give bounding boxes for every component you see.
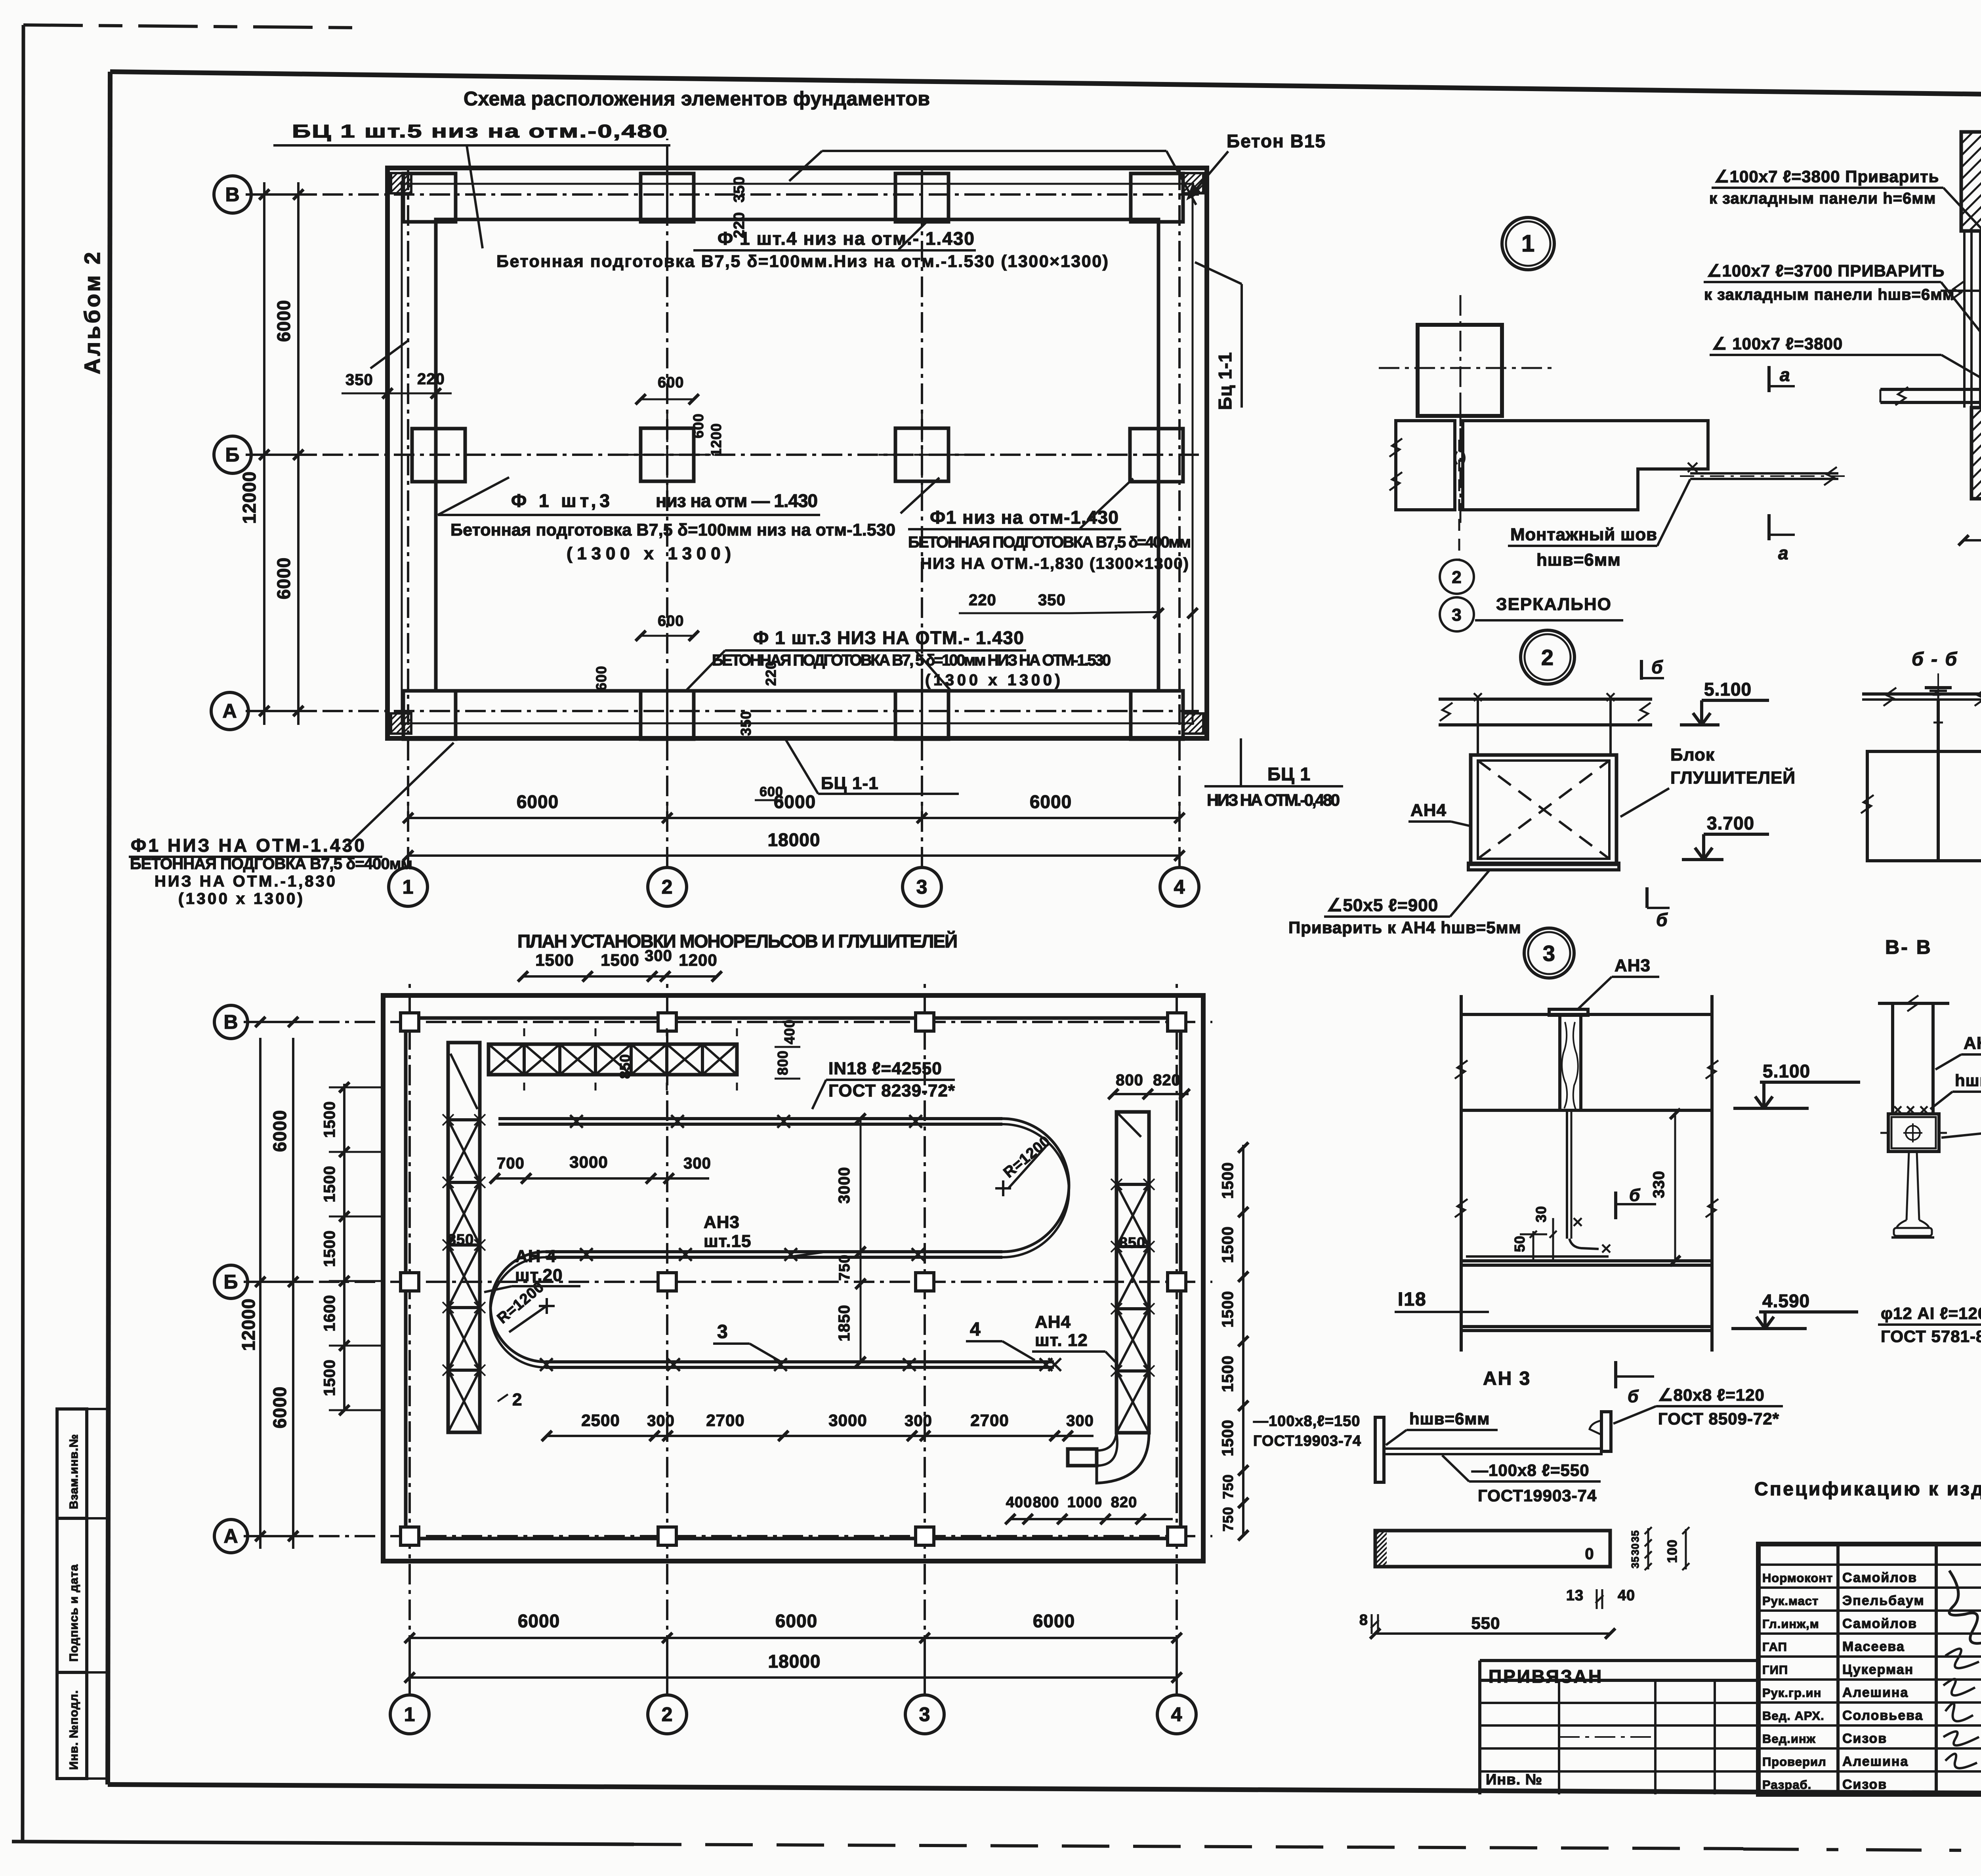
svg-text:Проверил: Проверил [1762,1755,1826,1769]
svg-text:Бц 1-1: Бц 1-1 [1215,352,1235,410]
svg-text:1200: 1200 [679,951,717,969]
title block [1758,1544,1981,1794]
svg-text:Самойлов: Самойлов [1842,1616,1917,1631]
svg-text:БЕТОННАЯ ПОДГОТОВКА В7,5 δ=400: БЕТОННАЯ ПОДГОТОВКА В7,5 δ=400мм [908,534,1191,551]
svg-text:Взам.инв.№: Взам.инв.№ [67,1434,80,1509]
svg-text:В: В [223,1011,238,1033]
detail 3: АН3 anchor elevation [1524,928,1574,978]
svg-text:ПЛАН УСТАНОВКИ МОНОРЕЛЬСОВ И Г: ПЛАН УСТАНОВКИ МОНОРЕЛЬСОВ И ГЛУШИТЕЛЕЙ [517,931,959,951]
svg-text:Нормоконт: Нормоконт [1762,1571,1833,1585]
svg-text:ГИП: ГИП [1762,1663,1788,1677]
svg-text:φ12 АI ℓ=120: φ12 АI ℓ=120 [1881,1304,1981,1323]
svg-text:750: 750 [1220,1474,1236,1499]
svg-text:800: 800 [1116,1071,1143,1089]
svg-text:600: 600 [658,613,684,629]
svg-text:Цукерман: Цукерман [1842,1662,1914,1677]
svg-text:850: 850 [1119,1235,1145,1251]
svg-text:Блок: Блок [1670,745,1715,765]
svg-text:3: 3 [916,876,928,898]
svg-text:А: А [222,700,237,722]
svg-text:В: В [225,183,240,206]
svg-text:АН4: АН4 [1035,1312,1071,1332]
svg-text:18000: 18000 [768,1651,821,1672]
svg-text:1500: 1500 [321,1166,338,1203]
svg-text:35: 35 [1629,1556,1641,1569]
svg-text:б: б [1628,1387,1639,1406]
svg-text:БЦ 1 шт.5 низ на отм.-0,480: БЦ 1 шт.5 низ на отм.-0,480 [292,121,668,141]
svg-text:750: 750 [1220,1506,1236,1531]
svg-text:1: 1 [1521,230,1535,257]
page edges [23,25,23,1842]
svg-text:2700: 2700 [706,1411,744,1430]
svg-text:НИЗ НА ОТМ.-1,830 (1300×1300): НИЗ НА ОТМ.-1,830 (1300×1300) [920,555,1189,572]
svg-text:1500: 1500 [1219,1291,1237,1328]
svg-text:800: 800 [1033,1494,1059,1511]
svg-text:300: 300 [645,947,672,965]
svg-text:АН 3: АН 3 [1483,1368,1531,1389]
svg-text:350: 350 [345,371,373,389]
svg-text:6000: 6000 [1030,791,1072,812]
svg-text:6000: 6000 [1033,1611,1075,1631]
svg-text:шт.20: шт.20 [515,1266,563,1285]
svg-text:Бетонная подготовка В7,5 δ=100: Бетонная подготовка В7,5 δ=100мм.Низ на … [496,252,1109,271]
svg-text:1500: 1500 [1219,1226,1237,1263]
svg-text:ГОСТ19903-74: ГОСТ19903-74 [1478,1486,1597,1505]
svg-text:3000: 3000 [828,1411,867,1430]
svg-text:∠50х5 ℓ=900: ∠50х5 ℓ=900 [1327,896,1438,915]
svg-text:0: 0 [1585,1545,1594,1563]
svg-text:100: 100 [1665,1539,1680,1563]
svg-text:АН3: АН3 [1615,956,1651,975]
svg-text:НИЗ НА ОТМ.-1,830: НИЗ НА ОТМ.-1,830 [155,873,336,890]
svg-text:6000: 6000 [775,1611,817,1631]
svg-text:700: 700 [497,1155,525,1172]
svg-text:Б: Б [224,1271,239,1293]
svg-text:—100х8 ℓ=550: —100х8 ℓ=550 [1471,1461,1590,1479]
svg-text:ГОСТ 8509-72*: ГОСТ 8509-72* [1658,1409,1779,1428]
svg-text:hшв=8мм: hшв=8мм [1955,1071,1981,1090]
svg-text:350: 350 [1038,591,1066,609]
svg-text:850: 850 [448,1232,474,1248]
svg-text:к закладным панели h=6мм: к закладным панели h=6мм [1709,190,1936,207]
svg-text:400: 400 [1006,1494,1032,1511]
svg-text:5.100: 5.100 [1763,1061,1810,1081]
svg-text:4: 4 [1171,1703,1183,1725]
svg-text:Рук.гр.ин: Рук.гр.ин [1762,1686,1821,1700]
svg-text:hшв=6мм: hшв=6мм [1536,550,1621,570]
svg-text:a: a [1780,364,1790,385]
svg-text:1500: 1500 [321,1359,338,1396]
svg-text:750: 750 [836,1254,853,1281]
svg-text:2: 2 [662,876,673,898]
svg-text:600: 600 [690,413,706,438]
svg-text:1500: 1500 [1219,1356,1237,1392]
svg-text:б: б [1656,909,1668,930]
svg-text:3: 3 [919,1703,931,1725]
svg-text:1: 1 [403,876,414,898]
svg-text:Соловьева: Соловьева [1842,1708,1923,1723]
svg-text:3: 3 [1543,941,1555,966]
svg-text:Разраб.: Разраб. [1762,1778,1811,1792]
svg-text:2: 2 [512,1390,522,1409]
svg-text:12000: 12000 [239,471,260,524]
svg-text:Альбом 2: Альбом 2 [80,250,105,374]
svg-text:4: 4 [970,1319,981,1340]
svg-text:6000: 6000 [518,1611,560,1631]
svg-text:АН3: АН3 [704,1213,740,1232]
svg-text:2700: 2700 [970,1411,1009,1430]
svg-text:1600: 1600 [321,1295,338,1332]
svg-text:б - б: б - б [1912,649,1958,670]
svg-text:Гл.инж,м: Гл.инж,м [1762,1617,1819,1631]
svg-text:3000: 3000 [569,1153,608,1171]
svg-text:400: 400 [781,1019,798,1044]
svg-text:4: 4 [1174,876,1185,898]
svg-text:Самойлов: Самойлов [1842,1570,1917,1585]
svg-text:А: А [223,1525,238,1547]
svg-text:350: 350 [731,176,748,202]
svg-text:шт. 12: шт. 12 [1035,1331,1088,1350]
svg-text:220: 220 [731,212,748,238]
svg-text:ГАП: ГАП [1762,1640,1787,1654]
svg-text:850: 850 [617,1054,633,1079]
svg-text:1500: 1500 [321,1101,338,1138]
svg-text:ГЛУШИТЕЛЕЙ: ГЛУШИТЕЛЕЙ [1670,767,1796,787]
svg-text:Б: Б [225,444,240,466]
svg-text:ГОСТ 8239-72*: ГОСТ 8239-72* [828,1081,955,1100]
svg-text:Масеева: Масеева [1842,1639,1905,1654]
svg-text:к закладным панели hшв=6мм: к закладным панели hшв=6мм [1704,286,1954,303]
svg-text:Эпельбаум: Эпельбаум [1842,1593,1925,1608]
svg-text:Спецификацию к изделиям см. ли: Спецификацию к изделиям см. лист 2 [1754,1479,1981,1500]
svg-text:1200: 1200 [708,423,724,456]
svg-text:1500: 1500 [1219,1162,1237,1199]
svg-text:30: 30 [1533,1206,1549,1222]
svg-text:2: 2 [1452,568,1462,587]
svg-text:6000: 6000 [269,1110,290,1152]
svg-text:Сизов: Сизов [1842,1731,1887,1746]
svg-text:ГОСТ19903-74: ГОСТ19903-74 [1253,1433,1361,1449]
svg-text:35: 35 [1629,1530,1641,1542]
svg-text:В- В: В- В [1885,936,1932,958]
svg-text:Алешина: Алешина [1842,1754,1908,1769]
svg-text:БЦ 1: БЦ 1 [1267,764,1311,784]
svg-text:БЦ 1-1: БЦ 1-1 [821,774,879,793]
svg-text:550: 550 [1471,1614,1500,1632]
svg-text:800: 800 [775,1050,791,1075]
svg-text:∠ 100х7 ℓ=3800: ∠ 100х7 ℓ=3800 [1712,334,1843,353]
detail 1: panel joint [1502,217,1554,270]
detail 2: Блок глушителей [1521,630,1574,684]
svg-text:600: 600 [593,665,609,690]
svg-text:1000: 1000 [1067,1494,1103,1511]
svg-text:Схема расположения элементов ф: Схема расположения элементов фундаментов [464,88,931,110]
svg-text:ГОСТ 5781-82*: ГОСТ 5781-82* [1881,1327,1981,1346]
svg-text:Бетон В15: Бетон В15 [1227,131,1326,151]
svg-text:6000: 6000 [517,791,559,812]
svg-text:300: 300 [1066,1412,1094,1430]
svg-text:6000: 6000 [273,557,294,599]
svg-text:3000: 3000 [836,1167,853,1204]
svg-text:Вед.инж: Вед.инж [1762,1732,1816,1746]
svg-text:12000: 12000 [238,1298,259,1351]
svg-text:БЕТОННАЯ ПОДГОВКА В7,5 δ=400мм: БЕТОННАЯ ПОДГОВКА В7,5 δ=400мм [130,855,413,873]
svg-text:(1300 х 1300): (1300 х 1300) [178,890,303,907]
svg-text:300: 300 [905,1412,932,1430]
svg-text:1850: 1850 [836,1305,853,1342]
svg-text:НИЗ НА ОТМ.-0,480: НИЗ НА ОТМ.-0,480 [1207,791,1340,809]
svg-text:600: 600 [658,374,684,391]
svg-text:8: 8 [1359,1612,1368,1628]
drawing frame [110,72,1981,101]
svg-text:АН 4: АН 4 [515,1247,556,1266]
svg-text:Сизов: Сизов [1842,1777,1887,1792]
svg-text:820: 820 [1153,1071,1181,1089]
svg-text:18000: 18000 [768,829,821,850]
svg-text:220: 220 [969,591,996,609]
svg-text:∠100х7 ℓ=3700 ПРИВАРИТЬ: ∠100х7 ℓ=3700 ПРИВАРИТЬ [1707,261,1945,280]
svg-text:5.100: 5.100 [1704,679,1752,700]
svg-text:АН4: АН4 [1410,801,1447,820]
svg-text:Инв. №: Инв. № [1486,1771,1542,1788]
svg-text:ПРИВЯЗАН: ПРИВЯЗАН [1489,1666,1603,1687]
svg-text:3.700: 3.700 [1707,813,1754,833]
svg-text:600: 600 [760,784,783,799]
svg-text:∠80х8 ℓ=120: ∠80х8 ℓ=120 [1658,1386,1765,1404]
svg-text:ЗЕРКАЛЬНО: ЗЕРКАЛЬНО [1496,595,1612,614]
svg-text:3: 3 [717,1321,728,1342]
svg-text:IN18 ℓ=42550: IN18 ℓ=42550 [828,1059,942,1078]
svg-text:Монтажный шов: Монтажный шов [1510,525,1657,544]
svg-text:300: 300 [683,1155,711,1172]
svg-text:(1300 x 1300): (1300 x 1300) [925,671,1061,689]
svg-text:шт.15: шт.15 [704,1232,752,1251]
svg-text:Подпись и дата: Подпись и дата [67,1564,80,1662]
svg-text:hшв=6мм: hшв=6мм [1409,1409,1490,1428]
svg-text:I18: I18 [1398,1289,1427,1310]
svg-text:Ф 1 шт.4 низ на отм.- 1.430: Ф 1 шт.4 низ на отм.- 1.430 [718,228,975,249]
svg-text:б: б [1629,1186,1641,1205]
svg-text:2: 2 [662,1703,673,1725]
svg-text:350: 350 [738,711,754,736]
svg-text:30: 30 [1629,1543,1641,1556]
svg-text:50: 50 [1512,1235,1528,1252]
svg-text:6000: 6000 [269,1386,290,1428]
svg-text:2: 2 [1541,645,1554,670]
svg-text:13: 13 [1566,1587,1584,1604]
svg-text:1500: 1500 [601,951,639,969]
svg-text:1: 1 [404,1703,416,1725]
svg-text:220: 220 [763,661,779,686]
svg-text:1500: 1500 [1219,1420,1237,1457]
svg-text:1500: 1500 [321,1230,338,1267]
svg-text:—100х8,ℓ=150: —100х8,ℓ=150 [1253,1413,1360,1430]
svg-text:Рук.маст: Рук.маст [1762,1594,1819,1608]
svg-text:Приварить к АН4 hшв=5мм: Приварить к АН4 hшв=5мм [1288,918,1521,937]
svg-text:4.590: 4.590 [1762,1291,1810,1311]
svg-text:1500: 1500 [535,951,574,969]
svg-text:820: 820 [1111,1494,1137,1511]
svg-text:Бетонная подготовка В7,5 δ=100: Бетонная подготовка В7,5 δ=100мм низ на … [450,520,896,540]
svg-text:300: 300 [647,1412,675,1430]
svg-text:Алешина: Алешина [1842,1685,1908,1700]
svg-text:40: 40 [1618,1587,1635,1604]
svg-text:6000: 6000 [273,300,294,342]
svg-text:Инв. №подл.: Инв. №подл. [67,1690,80,1770]
svg-text:∠100х7 ℓ=3800 Приварить: ∠100х7 ℓ=3800 Приварить [1714,167,1939,186]
svg-text:Вед. АРХ.: Вед. АРХ. [1762,1709,1825,1723]
svg-text:330: 330 [1650,1171,1668,1198]
svg-text:Ф 1 шт.3 НИЗ НА ОТМ.- 1.430: Ф 1 шт.3 НИЗ НА ОТМ.- 1.430 [753,627,1024,648]
svg-text:a: a [1778,543,1789,563]
svg-text:низ на отм — 1.430: низ на отм — 1.430 [656,490,818,511]
svg-text:220: 220 [417,370,445,388]
svg-text:б: б [1651,657,1663,677]
svg-text:АН3: АН3 [1964,1033,1981,1053]
svg-text:2500: 2500 [581,1411,620,1430]
svg-text:3: 3 [1452,605,1462,625]
